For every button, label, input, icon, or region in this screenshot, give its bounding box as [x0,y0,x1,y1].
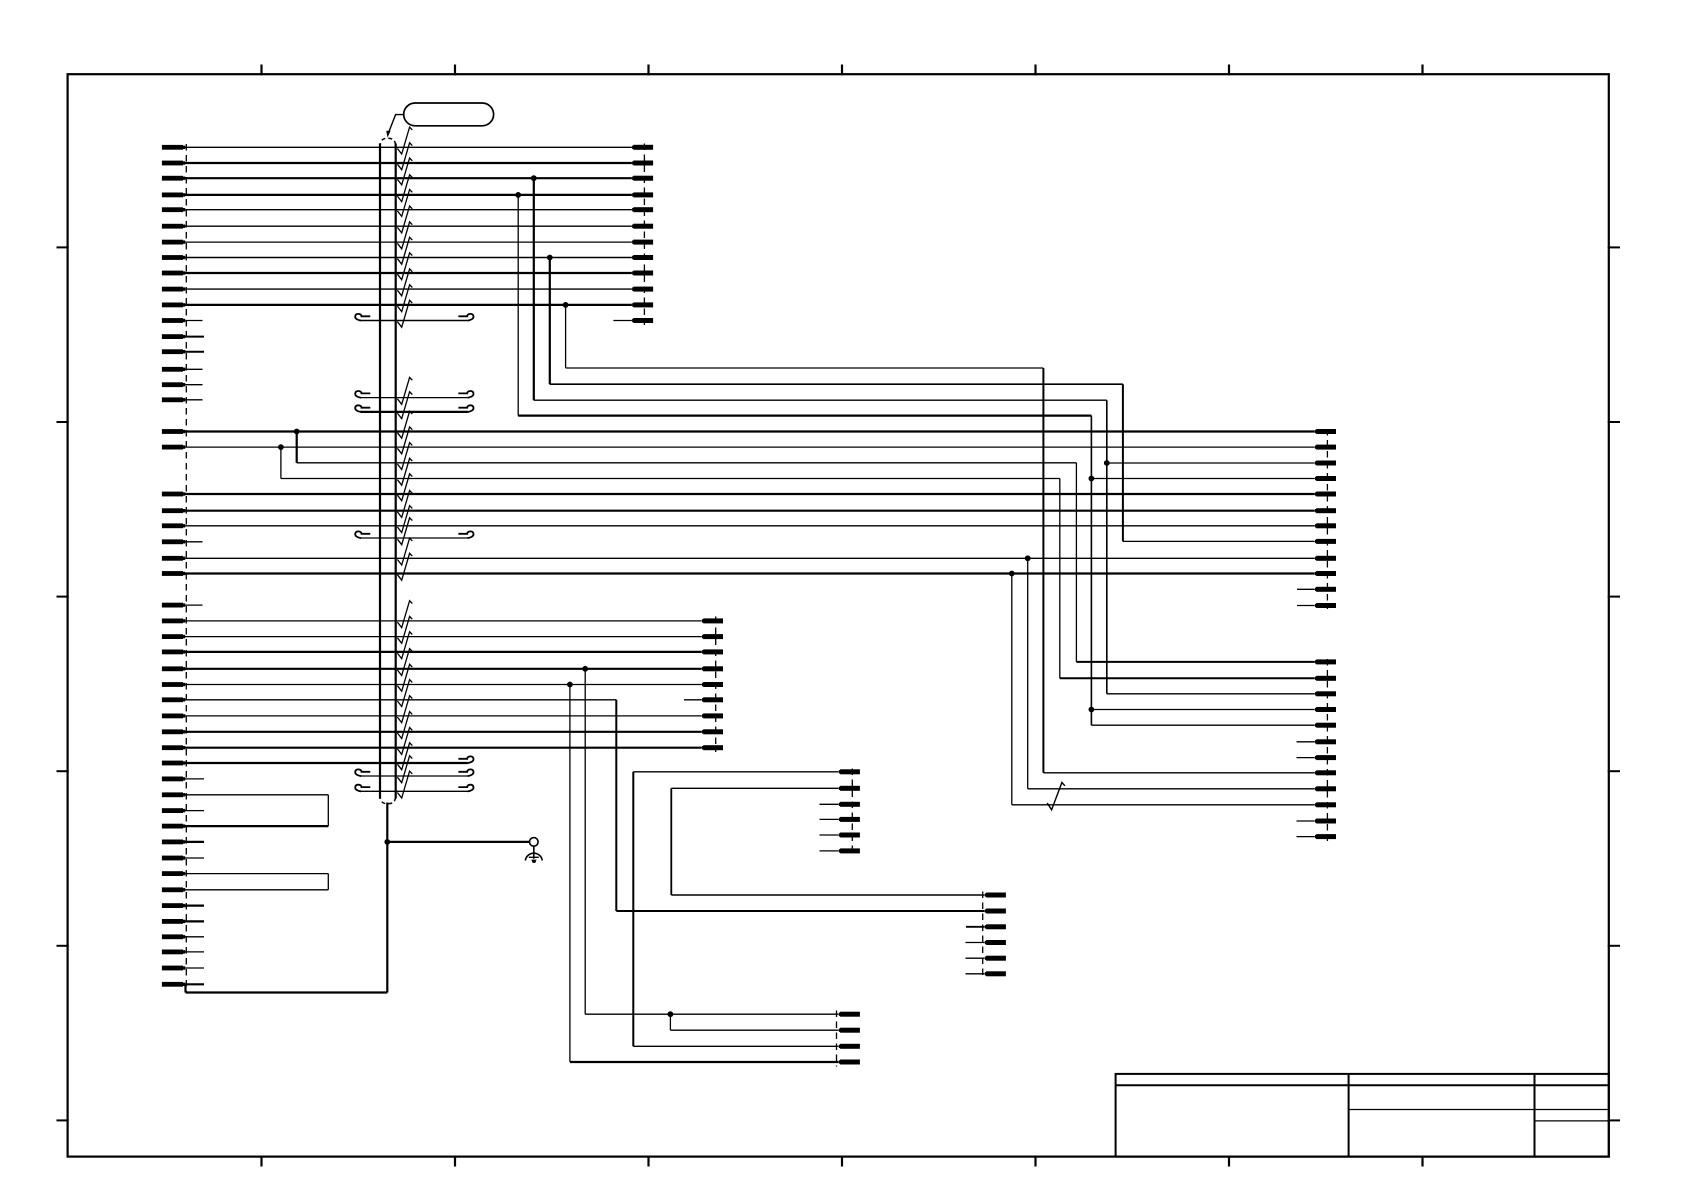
feeder wire y=462.8 [297,462,1077,464]
earth symbol stem [533,846,535,859]
wire J5 row773 [1043,772,1314,774]
wire J5 row789 [1028,788,1315,790]
earth terminal circle [530,838,539,847]
router vertical x=1027.7 [1027,558,1029,789]
router vertical x=1091.4 [1090,416,1092,726]
wire row652 J1 to J3 [185,651,702,653]
shield jumper with curls y=397.6 [355,391,473,398]
cable bottom dashed arc [380,795,396,804]
vertical branch x=549.8 [549,258,551,385]
junction dot row669 [582,666,588,672]
wire row510 J1 to J4 [185,510,1315,512]
connector J7 dashed body line [982,892,984,978]
wire J5 row662 [1076,661,1314,663]
feeder wire y=415.6 [518,415,1091,417]
vertical branch x=533.8 [533,178,535,400]
feeder wire y=478.5 [281,478,1060,480]
wire row431 J1 to J4 [185,430,1315,432]
connector J6 pins (6) [839,769,860,853]
J4 row589 stub [1297,588,1315,590]
cable bundle right boundary [395,144,397,799]
wire J1 row3 [185,177,632,179]
wire J1 row9 [185,272,632,274]
wire row748 J1 to J3 [185,747,702,749]
wire row788 to J6 [671,787,838,789]
router vertical x=1011.8 [1011,574,1013,805]
bundle slash rows789-805 [1047,783,1065,810]
wire row1046 to J8 [633,1045,838,1047]
J6 stub y=804.3 [820,803,839,805]
shield bus end riser [184,984,186,992]
router vertical x=1076.4 [1075,463,1077,662]
loop jumper rows 795-826 [185,795,328,826]
router vertical x=1059.8 [1059,479,1061,679]
J6 stub y=850.9 [820,850,839,852]
wire row895 to J7 [671,894,984,896]
wire row684 J1 to J3 [185,684,702,686]
feeder wire y=368 [566,367,1044,369]
connector J5 pins (12) [1315,659,1336,839]
wire row558 J1 to J4 [185,557,1315,559]
wire row1014 to J8 [585,1013,839,1015]
wire row573 J1 to J4 [185,572,1315,574]
cable bundle left boundary [379,144,381,799]
J7 stub y=942.5 [966,942,985,944]
title block divider 1 [1348,1074,1350,1157]
junction dot x=1091.4 y=709.5 [1089,707,1095,713]
connector J8 dashed body line [836,1011,838,1067]
junction dot row11 [563,302,569,308]
wire J5 row725 [1091,724,1314,726]
router vertical x=671.3 [670,788,672,895]
wire J1 row1 [185,146,632,148]
router vertical x=633.3 [632,772,634,1047]
label leader line [389,115,404,132]
bottom border zone ticks [262,1156,1423,1167]
J2 pin12 stub [613,320,632,322]
title block header line [1116,1084,1609,1086]
left border zone ticks [57,247,69,1120]
connector J4 dashed body line [1326,429,1328,609]
connector J3 pins (9) [702,618,723,750]
J5 row742 stub [1297,741,1315,743]
shield jumper with curls y=411.9 [355,405,473,412]
earth symbol bar [529,856,539,858]
wire J4 row541 from router [1123,540,1315,542]
wire J1 row6 [185,225,632,227]
branch vertical x=280.9 [280,447,282,478]
title block outer frame [1116,1074,1609,1157]
wire J1 row2 [185,162,632,164]
router vertical x=569.9 [569,685,571,1063]
label leader arrowhead [386,131,390,138]
connector J4 pins (12) [1315,429,1336,608]
J1 unconnected pin stubs [185,321,204,985]
shield bus bottom [186,991,388,993]
feeder wire y=400 [534,399,1107,401]
cable top dashed arc [380,138,396,147]
junction dot row447 [278,444,284,450]
J7 stub y=973.8 [966,973,985,975]
connector J3 dashed body line [715,617,717,753]
J6 stub y=835.0 [820,834,839,836]
router vertical x=1043.4 [1042,368,1044,773]
cable entry slashes [397,127,412,798]
wire row447 J1 to J4 [185,446,1315,448]
connector J8 pins (4) [839,1012,860,1065]
wire row669 J1 to J3 [185,668,702,670]
shield jumper with curls y=791.3 [355,785,473,792]
wire J5 row709.5 [1091,709,1314,711]
right border zone ticks [1608,247,1620,1120]
router vertical x=1106.8 [1106,400,1108,694]
connector J2 pins (12) [632,145,653,323]
connector J7 pins (6) [985,893,1006,977]
junction dot row1014 [668,1011,674,1017]
junction dot row8 [547,255,553,261]
junction dot row431 [294,429,300,435]
wire J1 row10 [185,288,632,290]
shield wire to earth [387,841,529,843]
loop jumper rows 874-890 [185,874,328,890]
router vertical x=1122.9 [1122,384,1124,541]
junction dot row573 [1009,571,1015,577]
wire J1 row8 [185,257,632,259]
wire J5 row694 [1107,693,1315,695]
wire J5 row678 [1060,677,1315,679]
earth symbol arc [525,853,542,860]
cable shield trunk vertical [386,803,388,993]
wire J1 row5 [185,209,632,211]
connector J6 dashed body line [851,769,853,856]
wire row621 J1 to J3 [185,620,702,622]
wire J1 row7 [185,241,632,243]
wire J1 row11 [185,304,632,306]
wire J1 row4 [185,194,632,196]
connector J5 dashed body line [1326,659,1328,841]
wire row772 to J6 [633,771,838,773]
J3 row700 pin stub [684,699,702,701]
branch vertical x=670.4 [669,1014,671,1030]
junction dot row3 [531,175,537,181]
wire J4 row463 from branch [1107,462,1315,464]
wire row700 J1 turning down [185,699,616,701]
wire row716 J1 to J3 [185,715,702,717]
wire row526 J1 to J4 [185,525,1315,527]
junction dot row558 [1025,555,1031,561]
title block mid cell line [1349,1109,1609,1111]
wire row1062 to J8 [570,1061,839,1063]
vertical branch x=565.6 [565,305,567,368]
junction dot row684 [567,682,573,688]
wire row911 to J7 [616,910,984,912]
router vertical x=616.3 [615,700,617,911]
vertical branch x=518.2 [517,195,519,416]
connector J1 pins (50) [162,145,185,987]
junction dot x=1106.8 y=463 [1104,460,1110,466]
wire J4 row478.5 from branch [1091,478,1314,480]
J5 row821 stub [1297,820,1315,822]
title block divider 2 [1534,1074,1536,1157]
shield jumper with curls y=776.0 [355,769,473,776]
junction dot row4 [515,192,521,198]
J4 row605 stub [1297,605,1315,607]
wire row732 J1 to J3 [185,731,702,733]
wire row637 J1 to J3 [185,636,702,638]
J7 stub y=926.8 [966,926,985,928]
wire row1030 to J8 [670,1029,838,1031]
cable reference label (pill) [404,103,494,126]
title block right cell line [1535,1120,1609,1122]
wire row763 with curl end [185,756,474,763]
J6 stub y=819.4 [820,818,839,820]
connector J2 dashed body line [643,144,645,326]
feeder wire y=384 [550,383,1123,385]
J7 stub y=958.2 [966,957,985,959]
shield jumper with curls y=538.0 [355,531,473,538]
connector J1 dashed body line [185,144,187,993]
junction dot x=1091.4 y=478.5 [1089,476,1095,482]
top border zone ticks [262,65,1423,76]
J5 row758 stub [1297,757,1315,759]
wire J5 row805 [1012,804,1315,806]
branch vertical x=296.7 [296,432,298,463]
J5 row837 stub [1297,836,1315,838]
router vertical x=585.2 [584,669,586,1014]
wire row494 J1 to J4 [185,493,1315,495]
junction dot shield [384,839,390,845]
earth symbol wedge [531,860,536,863]
shield jumper with curls y=320.5 [355,314,473,321]
